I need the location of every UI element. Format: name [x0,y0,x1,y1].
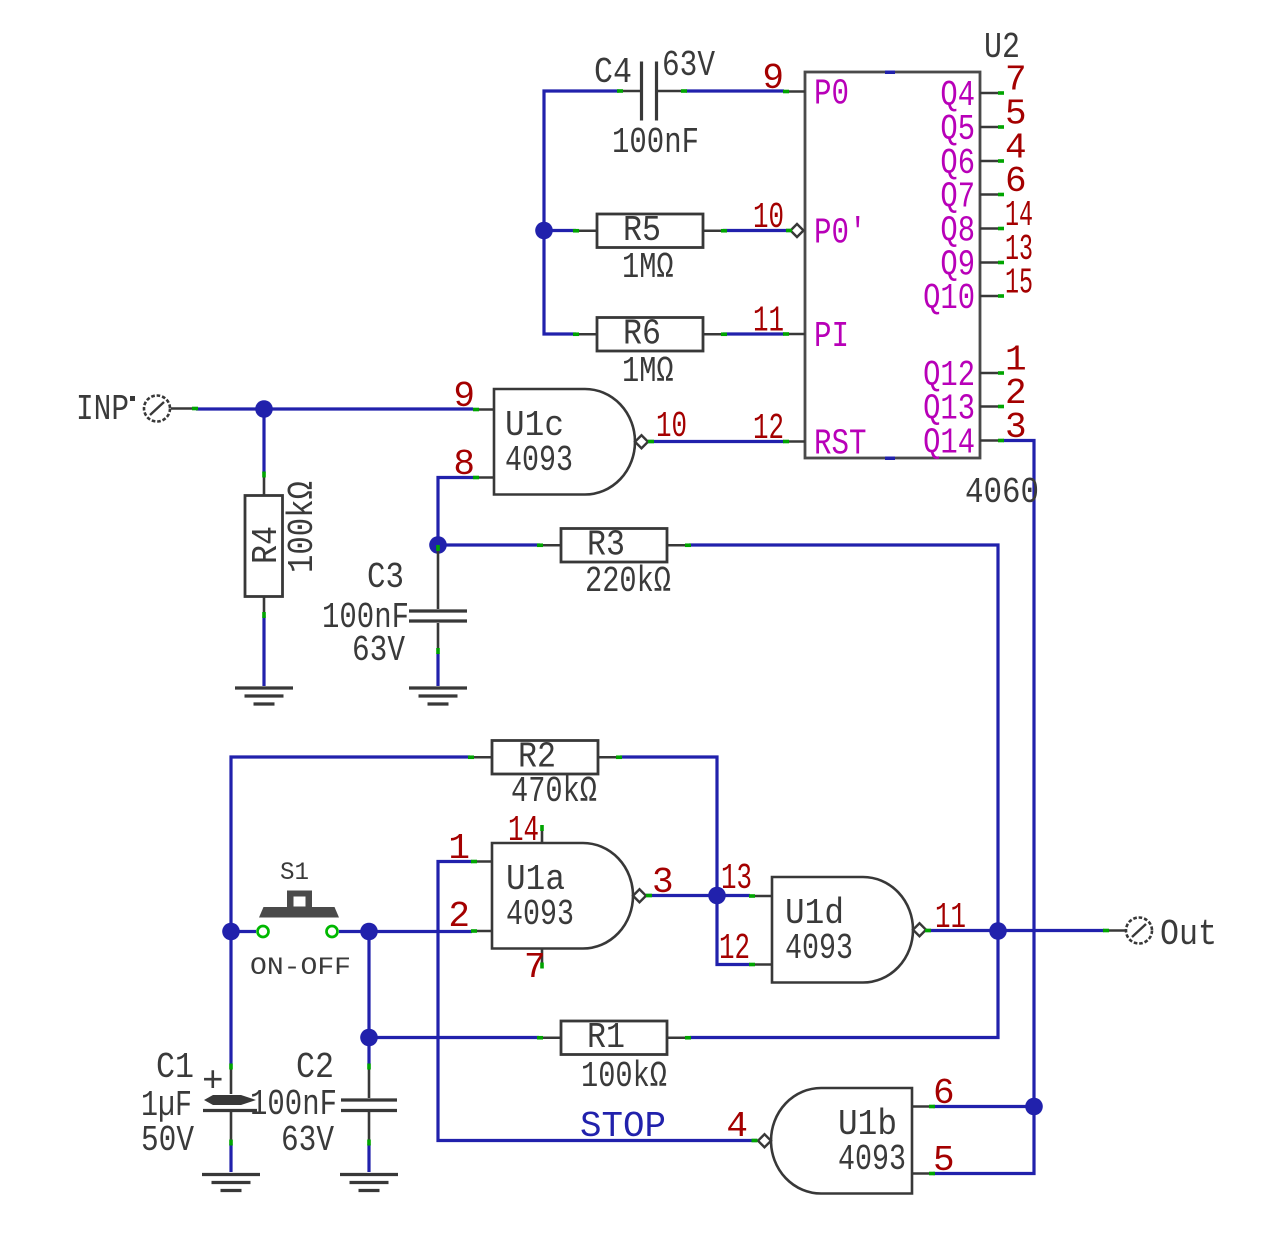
pin Q5 stub (U2) [980,125,1004,129]
junction left bus / S1 left [222,923,240,941]
svg-text:11: 11 [753,301,784,342]
wire U1a pin 1 down STOP net to U1b pin 4 [438,862,757,1141]
svg-text:P0: P0 [814,74,849,115]
pin 1 stub (U1a) [471,860,492,864]
svg-text:R5: R5 [623,210,661,251]
NAND gate U1c [494,389,648,495]
junction R1 left / C2 [360,1029,378,1047]
svg-text:50V: 50V [141,1120,194,1161]
svg-text:1MΩ: 1MΩ [622,247,674,288]
svg-text:11: 11 [935,897,966,938]
svg-text:1: 1 [448,828,470,869]
ground under C1 [202,1175,260,1191]
svg-text:12: 12 [719,928,750,969]
pin Q4 stub (U2) [980,91,1004,95]
ground under C2 [340,1175,398,1191]
pin 9 stub (U1c) [473,408,494,412]
svg-text:1MΩ: 1MΩ [622,351,674,392]
output tick U1d [925,929,931,933]
wire bus to R5 left [544,229,576,232]
wire C2 bottom to ground [367,1144,370,1172]
resistor R5 [573,214,727,248]
capacitor C3 [409,545,467,654]
svg-text:9: 9 [453,376,475,417]
wire Q14 net to U1b pin 6 [933,1105,1033,1108]
svg-text:R4: R4 [246,526,287,564]
NAND gate U1b [758,1088,912,1194]
pin 14 power stub (U1a) [540,825,544,843]
junction INP node [255,400,273,418]
svg-text:4093: 4093 [785,928,853,969]
junction Out net / R3 / R1 [989,922,1007,940]
wire S1 right contact to U1a pin 2 [339,930,472,933]
IC U2 4060 body [805,72,980,458]
power mark bottom (U2) [885,457,895,461]
svg-text:Q10: Q10 [923,278,975,319]
svg-text:8: 8 [453,444,475,485]
pin Q14 stub (U2) [980,439,1004,443]
svg-text:R6: R6 [623,314,661,355]
svg-text:100nF: 100nF [612,122,699,163]
svg-text:4093: 4093 [838,1139,906,1180]
pin Q13 stub (U2) [980,405,1004,409]
svg-text:9: 9 [762,58,784,99]
output tick U1c [648,440,654,444]
svg-text:STOP: STOP [580,1106,666,1147]
svg-text:63V: 63V [281,1120,334,1161]
junction C3/R3/pin8 node [429,536,447,554]
pin Q6 stub (U2) [980,159,1004,163]
pin 13 stub (U1d) [749,894,772,898]
svg-text:12: 12 [753,408,784,449]
wire C3 bottom to ground [436,653,439,686]
svg-text:INP: INP [76,389,129,430]
wire INP junction down to R4 [262,409,265,473]
svg-text:C2: C2 [296,1047,334,1088]
pin 12 stub (U1d) [749,963,772,967]
svg-text:+: + [202,1061,224,1102]
wire C4 left plate to R5/R6 left bus [544,91,619,334]
svg-text:6: 6 [933,1073,955,1114]
resistor R1 [537,1021,691,1055]
wire R2 left down to S1/C1 bus [231,757,470,1064]
resistor R3 [537,529,691,563]
svg-text:470kΩ: 470kΩ [511,771,597,812]
resistor R6 [573,318,727,352]
wire node down to U1d pin 12 [717,897,750,965]
pin Q10 stub (U2) [980,294,1004,298]
svg-text:14: 14 [508,810,539,851]
pin P0' (U2) with inverter diamond [786,224,804,237]
wire U1d output to Out connector [926,929,1104,932]
svg-text:R1: R1 [587,1017,625,1058]
input tick U1b [752,1139,758,1143]
output tick U1a [646,894,652,898]
svg-text:3: 3 [1005,407,1027,448]
svg-text:220kΩ: 220kΩ [585,561,671,602]
svg-text:4: 4 [726,1106,748,1147]
svg-text:C3: C3 [367,557,404,598]
wire R6 right to U2 PI [723,332,784,335]
capacitor C1 (polarized) [203,1064,257,1146]
svg-text:P0': P0' [814,213,867,254]
pin 8 stub (U1c) [473,476,494,480]
svg-text:PI: PI [814,316,849,357]
svg-text:7: 7 [524,947,546,988]
svg-text:3: 3 [652,862,674,903]
pin P0 stub (U2) [783,90,805,94]
power mark top (U2) [885,71,895,75]
svg-text:15: 15 [1005,263,1033,304]
svg-text:5: 5 [933,1140,955,1181]
svg-text:Q14: Q14 [923,423,975,464]
svg-text:63V: 63V [352,630,405,671]
junction C4/R5 bus [535,222,553,240]
svg-text:C4: C4 [594,52,632,93]
svg-text:ON-OFF: ON-OFF [250,953,351,982]
pin PI stub (U2) [783,332,805,336]
svg-text:100kΩ: 100kΩ [581,1056,667,1097]
wire R3 right down to R1 right [689,545,998,1038]
resistor R2 [468,741,622,775]
pin 5 stub (U1b) [912,1172,935,1176]
svg-text:4060: 4060 [965,472,1039,513]
wire R4 bottom to ground [262,616,265,686]
wire bus to S1 left contact [233,930,256,933]
wire U1c pin 8 down to C3 junction [438,478,473,545]
junction U1a output / R2 / U1d pin13 [708,887,726,905]
wire U2 Q14 down to U1b pin 5 [933,441,1034,1174]
switch S1 [258,891,340,938]
pin Q7 stub (U2) [980,193,1004,197]
wire node to R1 left [371,1036,539,1039]
svg-text:Out: Out [1160,914,1217,955]
junction Q14 net / U1b pins [1025,1098,1043,1116]
pin 7 power stub (U1a) [540,949,544,969]
wire U1a output to U1d pin 13 [646,894,750,897]
pin Q9 stub (U2) [980,261,1004,265]
svg-text:10: 10 [656,406,687,447]
wire R2 right down to U1a output node [620,757,717,894]
svg-text:S1: S1 [280,858,309,887]
resistor R4 [245,472,283,619]
NAND gate U1a [492,843,646,949]
svg-text:2: 2 [448,896,470,937]
wire S1 node down to R1/C2 node [367,932,370,1065]
capacitor C4 [617,62,687,121]
pin Q8 stub (U2) [980,227,1004,231]
connector INP [130,396,198,422]
wire C3 junction to R3 left [440,543,540,546]
junction S1 right / U1a pin2 [360,923,378,941]
svg-text:R3: R3 [587,525,625,566]
svg-text:100nF: 100nF [250,1084,337,1125]
wire R5 right to U2 P0' [723,229,790,232]
svg-text:63V: 63V [662,45,715,86]
pin RST stub (U2) [783,440,805,444]
pin 6 stub (U1b) [912,1105,935,1109]
svg-text:4093: 4093 [505,440,573,481]
wire INP to U1c pin 9 [196,407,473,410]
svg-text:RST: RST [814,424,867,465]
pin 2 stub (U1a) [471,929,492,933]
wire C4 right plate to U2 P0 [686,89,784,92]
NAND gate U1d [772,877,926,983]
capacitor C2 [341,1064,397,1146]
connector Out [1103,918,1152,944]
ground under C3 [409,688,467,704]
svg-text:C1: C1 [156,1047,194,1088]
svg-text:100kΩ: 100kΩ [282,481,323,573]
svg-text:13: 13 [721,858,752,899]
svg-text:10: 10 [753,197,784,238]
ground under R4 [235,688,293,704]
svg-text:4093: 4093 [506,894,574,935]
wire C1 bottom to ground [229,1144,232,1172]
wire U1c output to U2 RST [648,440,784,443]
pin Q12 stub (U2) [980,371,1004,375]
